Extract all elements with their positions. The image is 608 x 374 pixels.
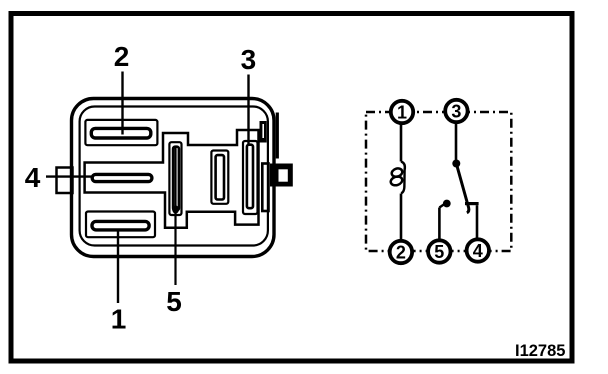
center unnumbered slot (211, 151, 228, 204)
switch blade (456, 164, 469, 213)
node 3 (445, 100, 467, 122)
svg-text:4: 4 (25, 162, 41, 193)
svg-text:3: 3 (451, 102, 461, 122)
svg-text:1: 1 (397, 103, 407, 123)
svg-text:1: 1 (111, 304, 127, 335)
pin 2 terminal slot (85, 120, 157, 145)
label 3 (241, 44, 257, 75)
label 2 (114, 41, 130, 72)
label 1 leader line (117, 229, 119, 303)
pin 1 terminal slot (86, 212, 155, 238)
node 2 (390, 241, 412, 263)
pin 5 terminal slot (169, 142, 181, 215)
label 1 (111, 304, 127, 335)
svg-text:5: 5 (166, 286, 182, 317)
coil wire upper (400, 124, 403, 162)
schematic phantom box (366, 112, 511, 251)
relay inner case outline (80, 107, 268, 246)
center cavity contour (85, 130, 259, 228)
svg-text:4: 4 (473, 241, 483, 261)
relay coil (390, 162, 405, 194)
left mounting tab (57, 168, 73, 194)
svg-text:I12785: I12785 (515, 342, 565, 360)
svg-text:2: 2 (396, 243, 406, 263)
label 4 (25, 162, 41, 193)
label 5 leader line (172, 147, 179, 285)
right edge slot (262, 164, 268, 212)
right mounting tab (270, 164, 293, 187)
svg-text:2: 2 (114, 41, 130, 72)
figure number I12785 (515, 342, 565, 360)
label 4 leader line (46, 175, 93, 177)
svg-text:5: 5 (434, 242, 444, 262)
node 4 (467, 239, 489, 261)
svg-text:3: 3 (241, 44, 257, 75)
pin 4 terminal slot (92, 174, 152, 181)
contact 5 (439, 200, 450, 240)
top-right key bar (260, 121, 267, 143)
node 1 (391, 101, 413, 123)
relay case right edge rib (276, 113, 279, 159)
coil wire lower (400, 194, 403, 241)
node 5 (428, 240, 450, 262)
switch wire from 3 (452, 123, 460, 168)
contact 4 (465, 204, 479, 238)
relay outer case (72, 99, 275, 257)
label 2 leader line (121, 72, 123, 135)
label 5 (166, 286, 182, 317)
label 3 leader line (247, 75, 249, 147)
pin 3 terminal slot (243, 141, 258, 214)
